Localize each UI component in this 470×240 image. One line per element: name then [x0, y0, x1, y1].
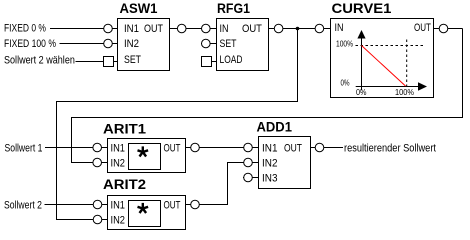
wire RFG1 OUT to CURVE1 IN [269, 28, 331, 30]
wire ADD1 OUT to label [311, 147, 344, 149]
svg-text:100%: 100% [336, 39, 353, 49]
svg-text:IN1: IN1 [124, 23, 139, 35]
svg-text:CURVE1: CURVE1 [332, 1, 392, 17]
svg-text:ASW1: ASW1 [120, 1, 158, 16]
connector ARIT2 IN2 [93, 215, 102, 224]
svg-text:OUT: OUT [242, 23, 263, 35]
wire RFG1 SET stub [201, 43, 217, 45]
svg-text:ARIT2: ARIT2 [103, 177, 146, 193]
svg-text:Sollwert 2: Sollwert 2 [4, 200, 42, 212]
wire feedback horizontal y117 [71, 117, 463, 119]
connector ARIT2 OUT [191, 200, 200, 209]
CURVE1 dashed 100% vertical [406, 40, 408, 90]
ARIT2 inner multiplier box [129, 201, 161, 227]
connector RFG1 OUT [274, 24, 283, 33]
connector ARIT1 IN1 [93, 143, 102, 152]
wire into ARIT2 IN2 [57, 219, 108, 221]
CURVE1 graph y-axis [356, 34, 418, 90]
svg-text:Sollwert 2 wählen: Sollwert 2 wählen [4, 55, 75, 67]
block CURVE1 box [331, 19, 434, 98]
connector ARIT2 IN1 [93, 200, 102, 209]
connector RFG1 LOAD (square) [202, 57, 212, 67]
svg-text:IN2: IN2 [111, 158, 126, 170]
svg-text:100%: 100% [395, 88, 414, 97]
wire RFG1 LOAD stub [201, 61, 216, 63]
connector CURVE1 IN [315, 24, 324, 33]
svg-text:OUT: OUT [164, 142, 181, 155]
svg-text:IN2: IN2 [111, 215, 126, 227]
connector ADD1 IN2 [244, 158, 253, 167]
svg-text:IN2: IN2 [262, 158, 278, 170]
CURVE1 red characteristic line [362, 46, 406, 87]
wire ASW1 OUT to RFG1 IN [170, 28, 217, 30]
svg-text:IN3: IN3 [262, 173, 278, 185]
svg-text:RFG1: RFG1 [217, 0, 250, 16]
block ARIT1 box [108, 139, 186, 173]
ARIT2 asterisk [138, 203, 149, 213]
svg-text:IN: IN [220, 23, 229, 35]
CURVE1 y-axis arrowhead [357, 30, 365, 39]
connector ASW1 IN2 [104, 39, 113, 48]
block ARIT2 box [108, 196, 186, 230]
CURVE1 dashed 100% horizontal [356, 45, 425, 47]
svg-text:Sollwert 1: Sollwert 1 [5, 143, 43, 155]
svg-text:ARIT1: ARIT1 [103, 122, 146, 138]
block RFG1 box [217, 19, 269, 71]
wire ARIT2 OUT up [227, 162, 229, 205]
wire Sollwert 1 to ARIT1 IN1 [45, 147, 108, 149]
connector ARIT1 OUT [191, 143, 200, 152]
svg-text:OUT: OUT [284, 143, 302, 155]
svg-text:ADD1: ADD1 [257, 119, 293, 135]
connector CURVE1 OUT [439, 24, 448, 33]
wire branch horizontal y101 [56, 101, 298, 103]
svg-text:IN1: IN1 [111, 200, 126, 212]
wire FIXED 0% to ASW1 IN1 [50, 28, 118, 30]
wire Sollwert 2 to ARIT2 IN1 [45, 204, 108, 206]
connector RFG1 IN [202, 24, 211, 33]
connector ARIT1 IN2 [93, 158, 102, 167]
svg-text:resultierender Sollwert: resultierender Sollwert [344, 143, 436, 155]
svg-text:FIXED 100 %: FIXED 100 % [4, 38, 56, 50]
wire ARIT2 OUT horizontal [186, 204, 229, 206]
wire into ADD1 IN2 [227, 162, 259, 164]
svg-text:IN2: IN2 [124, 38, 139, 50]
ARIT1 asterisk [138, 146, 149, 156]
svg-text:0%: 0% [356, 88, 367, 97]
connector ADD1 IN1 [244, 143, 253, 152]
wire FIXED 100% to ASW1 IN2 [60, 43, 118, 45]
svg-text:OUT: OUT [414, 22, 431, 35]
wire Sollwert 2 waehlen to ASW1 SET [75, 61, 118, 63]
svg-text:OUT: OUT [164, 199, 181, 212]
wire CURVE1 OUT horizontal [434, 28, 463, 30]
wire into ARIT1 IN2 [71, 162, 108, 164]
svg-text:IN: IN [335, 22, 344, 34]
wire feedback down to ARIT1 IN2 [71, 117, 73, 163]
svg-text:IN1: IN1 [262, 143, 278, 155]
svg-text:LOAD: LOAD [220, 54, 243, 66]
connector ASW1 OUT [177, 24, 186, 33]
CURVE1 x-axis arrowhead [418, 82, 427, 90]
svg-text:SET: SET [124, 54, 141, 66]
wire ADD1 IN3 stub [243, 177, 259, 179]
connector ASW1 SET (square) [104, 57, 114, 67]
block ADD1 box [259, 137, 311, 189]
wire RFG1 junction down [297, 29, 299, 103]
wire branch down left side [56, 101, 58, 220]
connector RFG1 SET [202, 39, 211, 48]
svg-text:0%: 0% [341, 79, 351, 88]
ARIT1 inner multiplier box [129, 144, 161, 170]
connector ADD1 OUT [315, 143, 324, 152]
svg-text:OUT: OUT [144, 23, 163, 35]
connector ADD1 IN3 [244, 173, 253, 182]
svg-text:FIXED 0 %: FIXED 0 % [4, 23, 46, 35]
svg-text:IN1: IN1 [111, 143, 126, 155]
wire CURVE1 OUT down right side [462, 29, 464, 119]
connector ASW1 IN1 [104, 24, 113, 33]
svg-text:SET: SET [220, 38, 237, 50]
junction node after RFG1 OUT [296, 27, 300, 31]
block ASW1 box [118, 19, 170, 71]
wire ARIT1 OUT to ADD1 IN1 [186, 147, 259, 149]
